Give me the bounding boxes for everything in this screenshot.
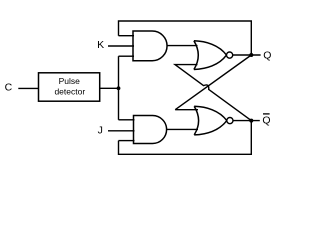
svg-text:Q: Q: [263, 49, 271, 61]
svg-text:K: K: [97, 39, 104, 51]
svg-text:J: J: [98, 125, 103, 137]
svg-text:Pulse: Pulse: [59, 76, 81, 86]
svg-text:detector: detector: [54, 87, 85, 97]
svg-text:Q: Q: [262, 115, 270, 127]
svg-text:C: C: [5, 82, 13, 94]
